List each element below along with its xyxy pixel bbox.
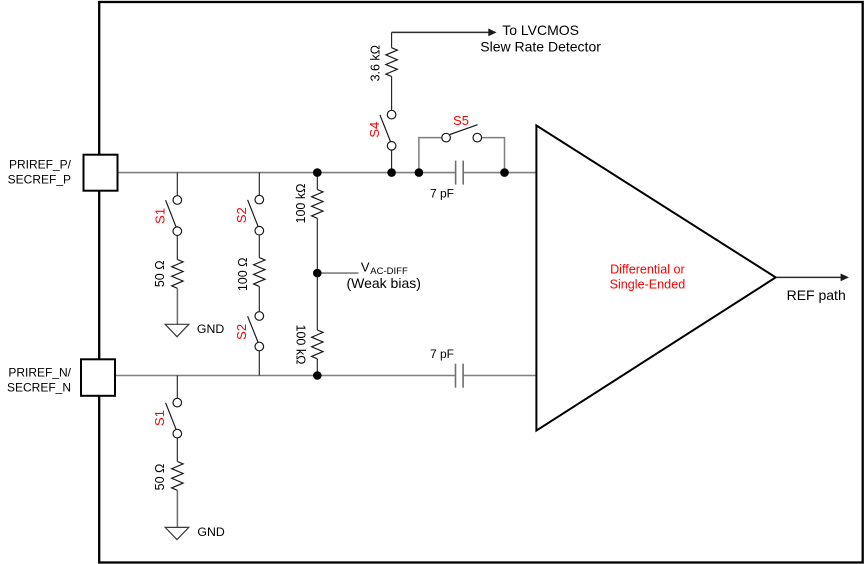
resistor 50 ohm (bottom) [172,438,183,490]
svg-text:SECREF_P: SECREF_P [8,173,71,187]
svg-text:GND: GND [197,322,224,336]
svg-text:S2: S2 [234,207,249,223]
wire top rail (PRIREF_P to amp input) [117,172,536,174]
resistor 3.6 kohm [386,48,397,111]
pin PRIREF_N/SECREF_N box [81,359,115,396]
resistor 50 ohm (top) [172,236,183,289]
svg-text:Single-Ended: Single-Ended [610,277,686,291]
svg-text:V: V [361,260,370,275]
capacitor 7 pF (top) [456,161,464,185]
resistor 100 ohm [254,235,265,286]
op-amp buffer triangle [536,126,775,431]
label To LVCMOS Slew Rate Detector [480,22,601,55]
svg-text:PRIREF_P/: PRIREF_P/ [9,158,72,172]
switch S5 bypass loop [419,125,505,173]
wire bottom rail (PRIREF_N to amp input) [115,375,536,377]
junction dot (100k bottom rail) [313,371,322,380]
svg-text:100 kΩ: 100 kΩ [294,184,308,224]
svg-text:Slew Rate Detector: Slew Rate Detector [480,38,601,54]
svg-text:7 pF: 7 pF [430,347,454,361]
svg-text:SECREF_N: SECREF_N [7,380,71,394]
junction dot (S5 right on rail) [500,168,509,177]
svg-text:3.6 kΩ: 3.6 kΩ [369,45,383,81]
svg-text:S2: S2 [234,324,249,340]
switch S1 (top) [166,173,182,236]
ground (bottom S1) [165,490,189,539]
pin PRIREF_P/SECREF_P box [84,155,118,191]
svg-text:PRIREF_N/: PRIREF_N/ [8,365,71,379]
switch S4 [380,110,396,172]
svg-text:Differential or: Differential or [610,262,685,276]
svg-text:S5: S5 [453,113,469,128]
switch S1 (bottom) [166,376,182,438]
node VAC-DIFF [313,269,359,278]
svg-text:S4: S4 [367,122,382,138]
resistor 100 kohm (top) [312,173,323,274]
svg-text:S1: S1 [152,208,167,224]
junction dot (100k top rail) [313,168,322,177]
resistor 100 kohm (bottom) [312,273,323,375]
svg-text:100 Ω: 100 Ω [236,257,250,291]
svg-text:7 pF: 7 pF [430,187,454,201]
capacitor 7 pF (bottom) [456,364,464,388]
svg-text:REF path: REF path [787,287,846,303]
label VAC-DIFF [346,260,420,291]
svg-text:100 kΩ: 100 kΩ [294,325,308,365]
output wire REF path with arrow [776,274,849,282]
label Differential or Single-Ended [610,262,686,291]
wire to LVCMOS slew rate detector with arrow [392,29,497,48]
svg-text:50 Ω: 50 Ω [153,464,167,491]
svg-text:(Weak bias): (Weak bias) [346,275,420,291]
switch S2 (bottom) [248,286,264,375]
junction dot (S4 on rail) [387,168,396,177]
svg-text:S1: S1 [152,410,167,426]
svg-text:To LVCMOS: To LVCMOS [502,22,579,38]
ground (top S1) [165,288,189,336]
svg-text:GND: GND [197,525,224,539]
switch S2 (top) [248,173,264,235]
junction dot (S5 left on rail) [415,168,424,177]
svg-text:50 Ω: 50 Ω [153,260,167,287]
